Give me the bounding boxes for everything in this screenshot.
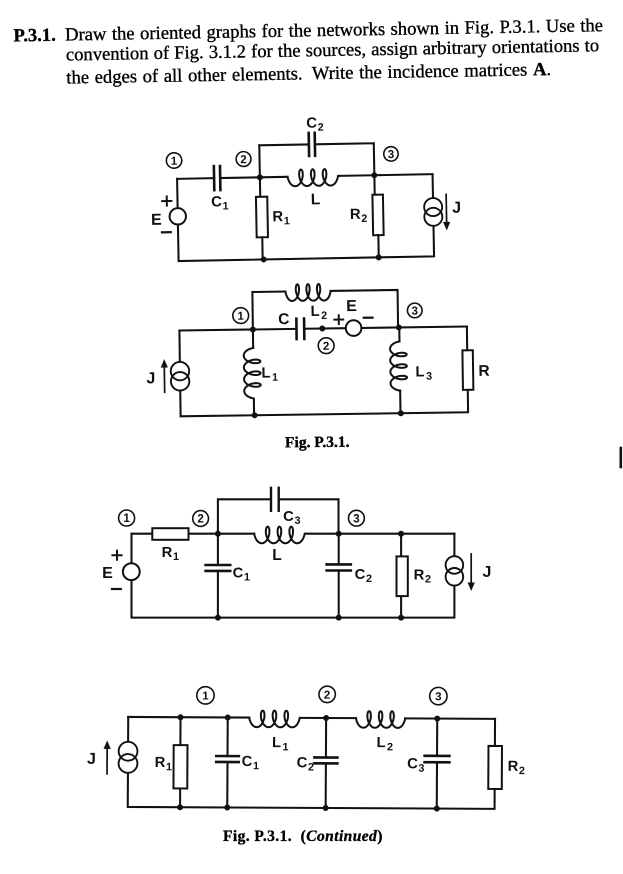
inductor L coil (287, 169, 338, 187)
node 3 circle (349, 510, 365, 526)
capacitor C1 (vertical branch) (217, 534, 219, 618)
wire: circuit-1 middle rail node1-to-node3 (177, 174, 432, 179)
junction node3 (336, 531, 342, 537)
svg-text:1: 1 (202, 691, 209, 703)
junction bottom of C1 (224, 804, 230, 810)
junction node2 (257, 174, 263, 180)
junction node3 (371, 172, 377, 178)
capacitor C3 plates (271, 488, 279, 511)
wire: circuit-4 top rail (128, 717, 495, 719)
svg-text:1: 1 (123, 513, 130, 525)
svg-text:3: 3 (418, 763, 424, 775)
wire: circuit-2 middle rail (179, 327, 466, 331)
node 1 circle (119, 510, 135, 526)
inductor L2 coil (285, 284, 331, 301)
svg-text:2: 2 (308, 761, 314, 773)
node 3 circle (384, 147, 399, 162)
svg-text:R: R (272, 209, 283, 225)
capacitor C1 plates (214, 166, 221, 190)
junction bottom of C3 (434, 806, 440, 812)
node 2 circle (319, 686, 335, 702)
inductor L3 (vertical) (398, 327, 400, 341)
wire: C2 top branch (259, 143, 374, 177)
svg-text:R: R (350, 207, 361, 223)
svg-text:R: R (162, 545, 173, 561)
junction rail at R2 (398, 531, 404, 537)
svg-text:2: 2 (366, 573, 372, 585)
junction node2 (323, 715, 329, 721)
svg-text:1: 1 (283, 741, 289, 753)
wire: node2 riser to C3 branch (218, 499, 339, 533)
capacitor C plates (296, 319, 304, 340)
wire: node2 riser to C2 branch (258, 145, 261, 177)
svg-text:C: C (278, 311, 289, 328)
svg-text:R: R (414, 567, 425, 583)
node 1 circle (233, 308, 249, 324)
node 2 circle (236, 151, 251, 166)
node 3 circle (407, 303, 422, 318)
svg-text:1: 1 (272, 372, 278, 384)
junction bottom of R1 (177, 804, 183, 810)
svg-text:L: L (261, 366, 270, 382)
node 3 circle (430, 687, 447, 704)
svg-text:1: 1 (253, 760, 259, 772)
svg-text:3: 3 (388, 149, 395, 161)
voltage source E (346, 320, 362, 336)
junction bottom of C2 (323, 805, 329, 811)
problem statement text (0, 0, 623, 111)
inductor L2 coil (356, 711, 405, 728)
arrow of J (up) (106, 748, 108, 774)
arrow of J (down) (445, 194, 448, 222)
wire: circuit-3 top rail (132, 533, 455, 535)
svg-text:C: C (355, 567, 366, 583)
svg-text:3: 3 (294, 515, 300, 527)
capacitor C2 (vertical branch) (325, 718, 328, 808)
junction bottom under C1 (215, 615, 221, 621)
svg-text:L: L (311, 191, 321, 208)
caption Fig. P.3.1. (285, 434, 350, 453)
capacitor C2 (vertical branch) (338, 534, 340, 618)
svg-text:C: C (242, 754, 253, 770)
svg-text:C: C (233, 565, 244, 581)
junction bottom under C2 (336, 615, 342, 621)
svg-text:E: E (102, 565, 113, 582)
svg-text:L: L (272, 735, 281, 751)
wire: L2 branch to node3 (331, 290, 398, 328)
svg-text:R: R (155, 755, 166, 771)
svg-text:2: 2 (361, 213, 367, 225)
wire: circuit-2 outer loop left branch + bottom rail + right branch (179, 327, 468, 417)
svg-text:C: C (306, 116, 317, 132)
resistor R (462, 350, 473, 390)
minus sign of E (112, 588, 121, 590)
minus sign of E (162, 231, 171, 233)
current source J (424, 198, 442, 216)
svg-text:1: 1 (171, 156, 178, 168)
capacitor C2 plates (309, 133, 315, 156)
svg-text:3: 3 (353, 513, 359, 525)
wire: circuit-4 outer loop (128, 717, 495, 809)
svg-text:J: J (452, 200, 461, 217)
arrow of J (down) (470, 554, 472, 584)
voltage source E1 (169, 208, 186, 225)
stray scan mark right margin (619, 448, 622, 467)
svg-text:L: L (377, 735, 386, 751)
junction node3 (434, 716, 440, 722)
capacitor C1 (vertical branch) (226, 717, 229, 807)
junction top of R1 (178, 714, 184, 720)
resistor R1 (179, 717, 182, 807)
capacitor C3 (vertical branch) (436, 719, 439, 809)
junction bottom under R2 (398, 615, 404, 621)
resistor R1 (259, 177, 261, 196)
resistor R2 (373, 175, 375, 194)
node 2 circle (318, 338, 334, 354)
inductor L coil (254, 527, 305, 544)
junction node1 (250, 326, 256, 332)
minus sign of E (364, 317, 373, 319)
svg-text:3: 3 (426, 370, 432, 382)
svg-text:L: L (311, 304, 320, 320)
svg-text:R: R (478, 363, 489, 380)
svg-text:1: 1 (222, 200, 228, 212)
plus sign of E (162, 196, 171, 205)
svg-text:2: 2 (324, 690, 330, 702)
current source J (171, 362, 190, 381)
resistor R2 (400, 534, 402, 618)
svg-text:J: J (483, 564, 492, 581)
junction bottom under L3 (398, 410, 404, 416)
svg-text:L: L (415, 364, 424, 380)
svg-text:2: 2 (321, 310, 327, 322)
svg-text:1: 1 (173, 551, 179, 563)
junction bottom under L1 (252, 412, 258, 418)
junction bottom under R2 (376, 254, 382, 260)
svg-text:2: 2 (240, 154, 247, 166)
svg-text:R: R (508, 759, 519, 775)
voltage source E (123, 563, 140, 580)
caption Fig. P.3.1. (Continued) (223, 828, 383, 846)
wire: circuit-1 left branch and bottom rail (177, 174, 434, 261)
node 1 circle (166, 153, 182, 169)
node 1 circle (197, 687, 214, 704)
current source J (119, 742, 138, 761)
svg-text:2: 2 (197, 514, 203, 526)
svg-text:2: 2 (323, 341, 330, 353)
svg-text:2: 2 (519, 765, 525, 777)
junction node2 (215, 531, 221, 537)
current source J (446, 556, 464, 574)
svg-text:C: C (283, 509, 294, 525)
svg-text:J: J (146, 370, 155, 387)
svg-text:2: 2 (387, 741, 393, 753)
svg-text:1: 1 (244, 572, 250, 584)
svg-text:C: C (211, 194, 222, 210)
wire: circuit-3 left branch + bottom rail + right branch (132, 534, 455, 618)
junction node3 (396, 324, 402, 330)
svg-text:1: 1 (237, 311, 244, 323)
svg-text:2: 2 (318, 122, 324, 134)
inductor L1 (vertical) (252, 329, 254, 347)
junction bottom under R1 (261, 256, 267, 262)
junction top of C1 (225, 714, 231, 720)
svg-text:2: 2 (425, 574, 431, 586)
resistor R1 (horizontal) (152, 528, 188, 540)
svg-text:C: C (297, 755, 308, 771)
svg-text:E: E (346, 298, 357, 315)
arrow of J (up) (163, 367, 165, 393)
plus sign of E (334, 315, 343, 324)
node 2 circle (193, 511, 209, 527)
svg-text:L: L (272, 547, 281, 564)
svg-text:1: 1 (166, 761, 172, 773)
svg-text:C: C (407, 756, 418, 772)
svg-text:J: J (87, 751, 96, 768)
junction node2 (319, 325, 325, 331)
svg-text:E: E (151, 212, 162, 229)
plus sign of E (112, 551, 121, 560)
wire: node1 riser to L2 branch (252, 292, 286, 330)
svg-text:1: 1 (284, 215, 290, 227)
svg-text:3: 3 (411, 306, 418, 318)
resistor R2 (488, 746, 502, 789)
inductor L1 coil (249, 711, 300, 728)
svg-text:3: 3 (435, 691, 441, 703)
